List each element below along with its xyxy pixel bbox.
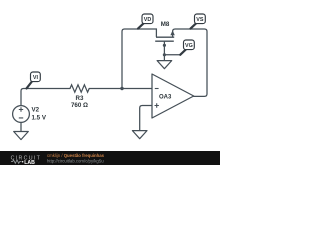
wire: MOSFET source leg, top-right corner, right vertical down to op-amp output xyxy=(173,29,207,96)
node A junction dot (left wire / main wire) xyxy=(120,87,123,90)
plus input sign xyxy=(155,103,159,107)
svg-text:M8: M8 xyxy=(161,21,170,28)
junction dot gate pin xyxy=(163,44,166,47)
resistor R3 xyxy=(70,85,89,92)
ground below V2 xyxy=(14,132,29,140)
svg-text:V2: V2 xyxy=(32,107,40,114)
junction dot VG stub xyxy=(163,53,166,56)
wire: VG stub xyxy=(164,54,180,56)
wire: resistor right to op-amp minus input xyxy=(89,88,152,90)
flag VS xyxy=(191,14,206,29)
footer logo bullet xyxy=(22,161,24,163)
flag VG xyxy=(180,40,194,55)
gate bar xyxy=(155,40,174,42)
voltage source V2 xyxy=(13,106,30,123)
wire: left vertical from node A up, top wire to MOSFET drain xyxy=(122,29,156,89)
wire: V2 bottom lead to ground xyxy=(20,122,22,131)
flag VI xyxy=(27,72,41,88)
svg-text:760 Ω: 760 Ω xyxy=(71,102,88,109)
svg-text:VI: VI xyxy=(33,75,39,81)
channel bar xyxy=(156,36,174,38)
wire: V2 top lead up and right to resistor xyxy=(21,89,70,106)
svg-text:LAB: LAB xyxy=(24,160,35,165)
wire: gate lead down to ground xyxy=(163,42,165,61)
svg-text:VG: VG xyxy=(185,43,193,49)
ground below op-amp plus input xyxy=(132,131,147,139)
svg-text:VD: VD xyxy=(144,17,152,23)
svg-text:OA3: OA3 xyxy=(159,95,172,101)
wire: op-amp plus input left and down to ground xyxy=(140,106,152,131)
svg-text:1.5 V: 1.5 V xyxy=(32,114,47,121)
footer bar xyxy=(0,151,220,165)
footer logo zigzag xyxy=(11,160,21,163)
flag VD xyxy=(138,14,153,29)
ground below gate xyxy=(157,61,172,69)
minus input sign xyxy=(155,88,159,90)
svg-text:http://circuitlab.com/c/py/kg5: http://circuitlab.com/c/py/kg5u xyxy=(47,159,104,164)
svg-text:VS: VS xyxy=(196,17,204,23)
source arrow xyxy=(170,30,174,35)
transistor M8 (NMOS, rotated) xyxy=(155,37,174,41)
svg-text:cmklijn / Questão frequinhas: cmklijn / Questão frequinhas xyxy=(47,153,105,158)
op-amp OA3 xyxy=(152,74,194,118)
